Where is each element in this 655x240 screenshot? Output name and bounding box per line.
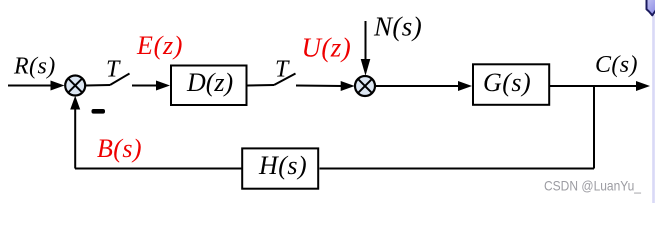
svg-text:E(z): E(z) [136,31,183,60]
sampler switch T1 arm [110,74,130,86]
summing junction 1 [65,76,85,96]
svg-text:N(s): N(s) [373,12,422,42]
block H(s) [242,148,318,188]
wire sampler2 to junction2 [296,85,342,88]
wire junction1 to sampler1 [86,84,110,87]
scrollbar strip [652,15,655,203]
block G(s) [473,64,549,105]
wire junction2 to G(s) [375,85,460,87]
wire D(z) to sampler2 [248,84,275,87]
summing junction 2 [355,76,375,96]
svg-text:G(s): G(s) [483,68,531,97]
wire branch to H(s) [320,168,595,170]
svg-text:T: T [106,57,121,83]
svg-text:D(z): D(z) [186,68,233,97]
wire input R(s) [8,85,52,87]
minus sign [92,109,106,114]
comment tag icon top-right [647,0,655,15]
svg-text:B(s): B(s) [97,134,142,163]
svg-text:CSDN @LuanYu_: CSDN @LuanYu_ [544,179,641,194]
wire sampler1 to D(z) [132,85,158,87]
block D(z) [171,66,247,106]
svg-text:T: T [275,57,290,83]
sampler switch T2 arm [274,74,296,86]
wire feedback up to junction1 [74,108,76,169]
wire G(s) to output C(s) [550,85,638,87]
wire branch down from output node [593,86,595,169]
svg-text:U(z): U(z) [302,33,352,63]
svg-text:R(s): R(s) [13,54,56,80]
svg-text:H(s): H(s) [258,151,307,180]
wire H(s) to feedback corner [75,168,242,170]
svg-text:C(s): C(s) [595,52,638,78]
wire N(s) input [365,21,367,61]
